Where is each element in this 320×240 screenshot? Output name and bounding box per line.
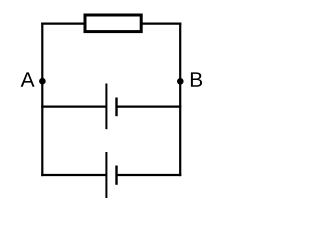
label B <box>191 72 202 86</box>
wire top-right (resistor to node B branch) <box>141 23 181 25</box>
resistor R1 <box>85 15 141 32</box>
node A <box>39 78 46 85</box>
battery cell E1 negative plate <box>115 98 117 117</box>
wire top-left (node A branch to resistor) <box>41 23 85 25</box>
battery cell E1 positive plate <box>105 84 107 130</box>
battery cell E2 negative plate <box>115 166 117 185</box>
wire bottom-right (cell E2 to right rail) <box>117 174 182 176</box>
battery cell E2 positive plate <box>105 152 107 198</box>
wire left vertical <box>41 23 43 177</box>
wire bottom-left (left rail to cell E2) <box>41 174 106 176</box>
node B <box>177 78 184 85</box>
label A <box>21 72 35 86</box>
wire middle-right (cell E1 to node B) <box>117 105 182 107</box>
wire right vertical <box>179 23 181 177</box>
wire middle-left (node A to cell E1) <box>41 105 106 107</box>
